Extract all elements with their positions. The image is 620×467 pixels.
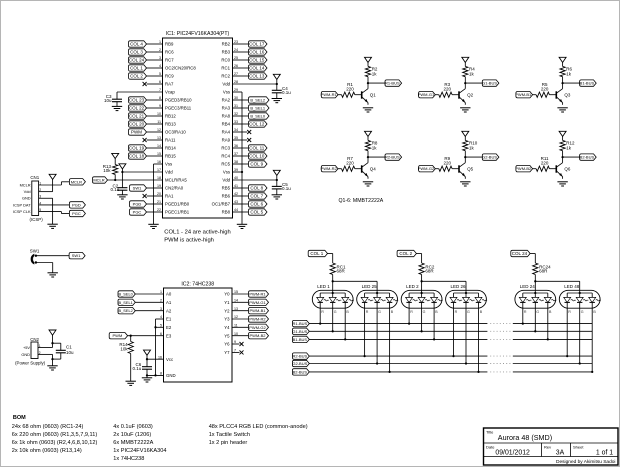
node COL 14 label (IC1 pin 26) bbox=[249, 65, 268, 71]
power Vdd Q2 bbox=[462, 57, 469, 62]
svg-text:(Power Supply): (Power Supply) bbox=[15, 361, 46, 366]
svg-text:2x 10uF (1206): 2x 10uF (1206) bbox=[113, 432, 151, 438]
svg-text:ICSP CLK: ICSP CLK bbox=[13, 209, 31, 214]
node MCLR label (IC1) bbox=[93, 177, 108, 183]
node R1-BUS label (Q1) bbox=[385, 80, 402, 86]
svg-text:PWM-G2: PWM-G2 bbox=[418, 166, 435, 171]
CN1 pin labels bbox=[13, 181, 41, 214]
svg-text:B_SEL1: B_SEL1 bbox=[119, 300, 133, 305]
svg-text:LED 48: LED 48 bbox=[564, 284, 580, 289]
svg-text:09/01/2012: 09/01/2012 bbox=[495, 450, 530, 457]
node PGC label (IC1) bbox=[130, 209, 147, 215]
wire R1-BUS line bbox=[309, 323, 592, 325]
wire collector Q5 out bbox=[465, 156, 482, 158]
wire IC1 pin17 Vdd bbox=[122, 169, 162, 188]
node G1-BUS label (bus) bbox=[292, 328, 309, 334]
svg-text:4x 0.1uF (0603): 4x 0.1uF (0603) bbox=[113, 424, 153, 430]
node junction CN2 bottom bbox=[51, 358, 53, 360]
power Vdd IC1 pin17 bbox=[119, 164, 126, 169]
wire LED 25 G cathode to bus bbox=[376, 302, 378, 363]
resistor R8 1k bbox=[365, 140, 378, 150]
wire R4 bottom bbox=[464, 77, 466, 83]
capacitor C1 bbox=[56, 345, 74, 355]
node COL 15 label (IC1 pin 25) bbox=[249, 57, 268, 63]
no-connect IC1 pin 20 bbox=[143, 194, 163, 198]
wire E1-E2 tie to GND bbox=[155, 319, 157, 375]
node junction pin28 bbox=[276, 83, 278, 85]
svg-text:LED 1: LED 1 bbox=[317, 284, 330, 289]
wire IC2 Vcc bbox=[147, 355, 164, 366]
svg-text:COL 24: COL 24 bbox=[129, 57, 145, 62]
wire LED 2 B cathode to bus bbox=[433, 302, 435, 339]
svg-text:1k: 1k bbox=[372, 145, 378, 150]
node junction pin17 bbox=[121, 171, 123, 173]
diode LED 1 B bbox=[342, 293, 354, 314]
svg-text:A1: A1 bbox=[166, 300, 172, 305]
svg-text:B1-BUS: B1-BUS bbox=[580, 81, 595, 86]
diode LED 48 R bbox=[564, 293, 576, 314]
ground CN1 bbox=[47, 224, 57, 228]
svg-text:RA3: RA3 bbox=[222, 106, 231, 111]
node junction RC1 bbox=[332, 280, 334, 282]
wire CN1 pin1 MCLR bbox=[39, 182, 70, 185]
node COL 22 label (IC1 pin 9) bbox=[129, 105, 147, 111]
wire LED 1 G cathode to bus bbox=[332, 302, 334, 331]
node PWM-R2 label (Q4) bbox=[321, 166, 338, 172]
svg-text:COL 8: COL 8 bbox=[250, 185, 263, 190]
diode LED 1 G bbox=[329, 293, 341, 314]
svg-text:CN2/RA0: CN2/RA0 bbox=[165, 186, 184, 191]
wire CN1 pin3 GND bbox=[39, 198, 53, 224]
svg-text:RB9: RB9 bbox=[165, 42, 174, 47]
resistor RC24 68R bbox=[533, 263, 551, 275]
svg-text:1k: 1k bbox=[469, 145, 475, 150]
svg-text:E2: E2 bbox=[166, 325, 172, 330]
svg-text:GND: GND bbox=[21, 352, 30, 357]
resistor R5 220 bbox=[536, 82, 549, 97]
svg-text:LED 2: LED 2 bbox=[406, 284, 419, 289]
wire LED 2 G cathode to bus bbox=[421, 302, 423, 331]
svg-text:Y0: Y0 bbox=[224, 292, 230, 297]
wire R11 to base bbox=[549, 168, 556, 170]
capacitor C6 bbox=[133, 362, 152, 371]
svg-text:B_SEL0: B_SEL0 bbox=[250, 113, 265, 118]
wire LED 25 R cathode to bus bbox=[364, 302, 366, 356]
svg-text:RB2: RB2 bbox=[222, 42, 231, 47]
wire R14 top bbox=[130, 336, 132, 342]
node junction E2 bbox=[154, 326, 156, 328]
svg-text:PGC: PGC bbox=[133, 209, 142, 214]
diode LED 26 R bbox=[450, 293, 462, 314]
node junction LED 26 G on bus bbox=[465, 362, 467, 364]
wire R12 top bbox=[562, 137, 564, 141]
wire IC2 GND pin bbox=[147, 374, 164, 376]
svg-text:COL 11: COL 11 bbox=[249, 145, 265, 150]
node COL 13 label (IC1 pin 27) bbox=[249, 73, 268, 79]
svg-text:1k: 1k bbox=[566, 71, 572, 76]
wire LED 26 B cathode to bus bbox=[478, 302, 480, 372]
svg-text:1x 2 pin header: 1x 2 pin header bbox=[209, 440, 248, 446]
node junction LED 2 anode bbox=[420, 292, 422, 294]
diode LED 1 R bbox=[317, 293, 329, 314]
node COL 8 label (IC1 pin 41) bbox=[249, 185, 268, 191]
svg-text:Y7: Y7 bbox=[224, 350, 230, 355]
capacitor C4 bbox=[272, 86, 291, 99]
svg-text:COL 15: COL 15 bbox=[249, 57, 265, 62]
wire R12 bottom bbox=[562, 151, 564, 157]
svg-text:1x 74HC238: 1x 74HC238 bbox=[113, 456, 144, 462]
wire LED 1 R cathode to bus bbox=[319, 302, 321, 323]
svg-text:PGC: PGC bbox=[72, 211, 81, 216]
node PGD label (CN1) bbox=[69, 202, 85, 208]
svg-text:PWM-B2: PWM-B2 bbox=[515, 166, 532, 171]
svg-text:MCLR: MCLR bbox=[20, 182, 31, 187]
note COL active-high bbox=[164, 230, 230, 244]
wire IC1 pin 12 bbox=[147, 131, 163, 133]
LED LED 25 package bbox=[357, 284, 398, 308]
svg-text:Y6: Y6 bbox=[224, 342, 230, 347]
wire IC1 pin 25 bbox=[233, 59, 249, 61]
node junction MCLR bbox=[114, 179, 116, 181]
svg-text:RB14: RB14 bbox=[165, 146, 176, 151]
wire SW1 bottom contact bbox=[36, 263, 53, 273]
svg-text:COL 22: COL 22 bbox=[129, 105, 145, 110]
svg-text:Aurora 48 (SMD): Aurora 48 (SMD) bbox=[498, 433, 552, 442]
svg-text:Q1-6: MMBT2222A: Q1-6: MMBT2222A bbox=[339, 198, 384, 204]
wire IC1 pin 30 bbox=[233, 99, 249, 101]
node COL 18 label (IC1 pin 15) bbox=[129, 153, 147, 159]
wire B1-BUS line bbox=[309, 338, 592, 340]
svg-text:CN1: CN1 bbox=[30, 175, 39, 180]
node COL 10 label (IC1 pin 37) bbox=[249, 153, 268, 159]
svg-text:COL 6: COL 6 bbox=[250, 201, 263, 206]
wire LED 24 R cathode to bus bbox=[522, 302, 524, 323]
node junction LED 2 R on bus bbox=[408, 322, 410, 324]
wire B1-BUS dotted continuation bbox=[487, 338, 513, 340]
wire IC1 pin 41 bbox=[233, 187, 249, 189]
capacitor C3 bbox=[104, 94, 122, 106]
node SW1 label (IC1 pin19) bbox=[130, 185, 147, 191]
node junction pin40 bbox=[276, 179, 278, 181]
node junction LED 25 anode bbox=[376, 292, 378, 294]
wire PWM-G2 to R9 bbox=[435, 168, 439, 170]
svg-text:G1-BUS: G1-BUS bbox=[292, 329, 307, 334]
node B2-BUS label (Q6) bbox=[580, 154, 597, 160]
svg-text:RA7: RA7 bbox=[165, 82, 174, 87]
ground SW1 bbox=[48, 273, 58, 277]
power Vdd CN1 bbox=[49, 174, 56, 179]
svg-text:10u: 10u bbox=[104, 98, 112, 103]
IC1 pin names bbox=[165, 42, 231, 215]
svg-text:48x PLCC4 RGB LED (common-anod: 48x PLCC4 RGB LED (common-anode) bbox=[209, 424, 308, 430]
svg-text:COL 3: COL 3 bbox=[130, 49, 143, 54]
wire LED 24 anode entry bbox=[523, 290, 548, 293]
wire LED 26 anode entry bbox=[454, 290, 479, 293]
ground C3 bbox=[112, 106, 122, 110]
wire LED 48 B cathode to bus bbox=[591, 302, 593, 372]
svg-text:RB3: RB3 bbox=[222, 50, 231, 55]
svg-text:MCLR/RA5: MCLR/RA5 bbox=[165, 178, 187, 183]
node COL 2 label (IC1 pin 5) bbox=[129, 73, 147, 79]
svg-text:1k: 1k bbox=[372, 71, 378, 76]
resistor R6 1k bbox=[560, 66, 573, 76]
no-connect IC2 Y7 bbox=[232, 350, 244, 354]
wire IC1 pin 15 bbox=[147, 155, 163, 157]
svg-text:LED 25: LED 25 bbox=[362, 284, 378, 289]
wire C1 top branch bbox=[53, 343, 61, 350]
svg-text:COL 24: COL 24 bbox=[512, 251, 528, 256]
svg-text:Q3: Q3 bbox=[564, 92, 571, 97]
node COL 24 label (IC1 pin 3) bbox=[129, 57, 147, 63]
svg-text:G2-BUS: G2-BUS bbox=[292, 361, 307, 366]
svg-text:0.1u: 0.1u bbox=[111, 187, 120, 192]
wire IC2 A2 bbox=[135, 310, 163, 312]
resistor R13 10k bbox=[103, 164, 118, 174]
svg-text:10u: 10u bbox=[66, 350, 74, 355]
node junction LED 1 R on bus bbox=[319, 322, 321, 324]
svg-text:1k: 1k bbox=[566, 145, 572, 150]
node MCLR label (CN1) bbox=[69, 179, 85, 185]
svg-text:RA11: RA11 bbox=[165, 138, 176, 143]
node B_SEL0 label (IC2) bbox=[118, 291, 135, 297]
wire R3 to base bbox=[452, 94, 459, 96]
node COL 16 label (IC1 pin 24) bbox=[249, 49, 268, 55]
wire G1-BUS line bbox=[309, 330, 592, 332]
diode LED 24 B bbox=[544, 293, 556, 314]
svg-text:R: R bbox=[524, 310, 527, 314]
resistor R3 220 bbox=[439, 82, 452, 97]
no-connect IC2 Y6 bbox=[232, 342, 244, 346]
svg-text:Designed by Akimitsu Sadoi: Designed by Akimitsu Sadoi bbox=[556, 459, 615, 465]
svg-text:G: G bbox=[423, 310, 426, 314]
svg-text:RB12: RB12 bbox=[165, 114, 176, 119]
svg-text:Rev: Rev bbox=[544, 444, 551, 449]
wire IC2 Y1 bbox=[232, 301, 249, 303]
svg-text:2x 10k ohm (0603) (R13,14): 2x 10k ohm (0603) (R13,14) bbox=[12, 448, 82, 454]
diode LED 48 B bbox=[589, 293, 601, 314]
svg-text:220: 220 bbox=[444, 86, 452, 91]
wire IC1 pin 24 bbox=[233, 51, 249, 53]
svg-text:(ICSP): (ICSP) bbox=[30, 217, 44, 222]
svg-text:220: 220 bbox=[541, 86, 549, 91]
svg-text:0.1u: 0.1u bbox=[133, 366, 142, 371]
wire anode branch LED 2 bbox=[421, 281, 423, 290]
wire R9 to base bbox=[452, 168, 459, 170]
node B1-BUS label (Q3) bbox=[580, 80, 597, 86]
wire CN1 pin4 PGD bbox=[39, 204, 70, 206]
ground C4 bbox=[272, 99, 282, 103]
svg-text:RB4: RB4 bbox=[222, 122, 231, 127]
node G2-BUS label (bus) bbox=[292, 360, 309, 366]
svg-text:Vdd: Vdd bbox=[165, 170, 173, 175]
wire IC2 A1 bbox=[135, 301, 163, 303]
power Vdd Q4 bbox=[365, 131, 372, 136]
wire R2-BUS dotted continuation bbox=[487, 355, 513, 357]
node COL 20 label (IC1 pin 11) bbox=[129, 121, 147, 127]
svg-text:COL 14: COL 14 bbox=[249, 65, 265, 70]
svg-text:Vss: Vss bbox=[223, 170, 230, 175]
wire PWM-R1 to R1 bbox=[338, 94, 342, 96]
node G1-BUS label (Q2) bbox=[482, 80, 499, 86]
node COL 21 label (IC1 pin 10) bbox=[129, 113, 147, 119]
svg-text:RA1: RA1 bbox=[165, 194, 174, 199]
svg-text:Y5: Y5 bbox=[224, 333, 230, 338]
svg-text:1k: 1k bbox=[469, 71, 475, 76]
svg-text:CN2: CN2 bbox=[30, 337, 39, 342]
wire IC1 pin 27 bbox=[233, 75, 249, 77]
node B_SEL1 label (IC2) bbox=[118, 299, 135, 305]
wire IC1 pin 1 bbox=[147, 43, 163, 45]
wire IC1 pin22 bbox=[147, 211, 163, 213]
wire anode branch LED 26 bbox=[422, 281, 466, 290]
node PWM-G2 label (Q5) bbox=[418, 166, 436, 172]
svg-text:G: G bbox=[467, 310, 470, 314]
node junction Vcc bbox=[146, 358, 148, 360]
wire R7 to base bbox=[355, 168, 362, 170]
node B_SEL2 label (IC2) bbox=[118, 308, 135, 314]
node junction LED 26 R on bus bbox=[452, 355, 454, 357]
node junction Q1 collector bbox=[367, 82, 369, 84]
node COL 9 label (IC1 pin 38) bbox=[249, 161, 268, 167]
wire collector Q3 out bbox=[563, 82, 580, 84]
node junction LED 1 G on bus bbox=[332, 330, 334, 332]
node PWM-R1 label (IC2 Y0) bbox=[249, 291, 269, 297]
title block frame bbox=[484, 428, 619, 465]
node B_SEL0 label (IC1 pin 32) bbox=[249, 113, 270, 119]
svg-text:COL1 - 24 are active-high: COL1 - 24 are active-high bbox=[164, 230, 230, 236]
wire LED 2 R cathode to bus bbox=[408, 302, 410, 323]
wire collector Q1 out bbox=[368, 82, 385, 84]
wire IC1 pin40 Vdd bbox=[233, 176, 277, 187]
svg-text:R2-BUS: R2-BUS bbox=[293, 354, 308, 359]
node B_SEL1 label (IC1 pin 31) bbox=[249, 105, 270, 111]
node junction Vss right bbox=[241, 171, 243, 173]
wire anode branch LED 48 bbox=[535, 281, 579, 290]
node junction CN2 top bbox=[51, 342, 53, 344]
node junction R14 bbox=[130, 335, 132, 337]
node PWM-G1 label (IC2 Y1) bbox=[249, 299, 269, 305]
LED LED 26 package bbox=[446, 284, 487, 308]
wire IC1 pin16 Vss bbox=[154, 164, 163, 224]
switch SW1 bbox=[30, 249, 40, 265]
node COL 6 label (IC1 pin 43) bbox=[249, 201, 268, 207]
svg-text:COL 4: COL 4 bbox=[130, 41, 143, 46]
wire IC1 pin 32 bbox=[233, 115, 249, 117]
wire anode branch LED 24 bbox=[534, 281, 536, 290]
diode LED 48 G bbox=[576, 293, 588, 314]
node junction LED 48 G on bus bbox=[579, 362, 581, 364]
node PGC label (CN1) bbox=[69, 210, 85, 216]
svg-text:COL 2: COL 2 bbox=[130, 73, 143, 78]
svg-text:PWM: PWM bbox=[113, 333, 123, 338]
wire GND drop bbox=[146, 375, 148, 377]
svg-text:R: R bbox=[568, 310, 571, 314]
wire IC1 pin 23 bbox=[233, 43, 249, 45]
wire LED 48 R cathode to bus bbox=[566, 302, 568, 356]
wire R13 bottom bbox=[114, 175, 116, 181]
node R2-BUS label (Q4) bbox=[385, 154, 402, 160]
node junction LED 24 R on bus bbox=[522, 322, 524, 324]
wire COL 24 to RC24 bbox=[530, 254, 535, 264]
wire R5 to base bbox=[549, 94, 556, 96]
svg-text:Q2: Q2 bbox=[467, 92, 474, 97]
svg-text:PWM-G1: PWM-G1 bbox=[249, 300, 266, 305]
node PWM label (IC2 E3) bbox=[109, 333, 127, 339]
power Vcc IC2 bbox=[144, 350, 151, 355]
note Q1-6 type bbox=[339, 198, 384, 204]
wire R2 top bbox=[367, 63, 369, 67]
wire IC1 pin18 MCLR bbox=[108, 179, 163, 181]
ground IC1 Vss left bbox=[148, 224, 158, 228]
connector CN2 box bbox=[21, 337, 40, 359]
power Vdd C5 bbox=[273, 170, 280, 175]
svg-text:3A: 3A bbox=[556, 450, 565, 457]
svg-text:COL 18: COL 18 bbox=[129, 153, 145, 158]
svg-text:E3: E3 bbox=[166, 333, 172, 338]
resistor R2 1k bbox=[365, 66, 378, 76]
wire IC2 E2 bbox=[156, 326, 164, 328]
wire collector Q4 out bbox=[368, 156, 385, 158]
node junction LED 24 anode bbox=[534, 292, 536, 294]
node junction LED 25 B on bus bbox=[388, 371, 390, 373]
ground Q3 bbox=[557, 108, 567, 112]
wire C6 bottom bbox=[146, 369, 148, 375]
node PWM-B2 label (IC2 Y5) bbox=[249, 333, 269, 339]
wire R14 bottom bbox=[130, 354, 132, 382]
wire IC1 pin21 bbox=[147, 203, 163, 205]
node COL 12 label (IC1 pin 33) bbox=[249, 121, 268, 127]
svg-text:OC1/RB7: OC1/RB7 bbox=[212, 202, 231, 207]
svg-text:R1-BUS: R1-BUS bbox=[385, 81, 400, 86]
ground Q6 bbox=[557, 182, 567, 186]
node COL 23 label (IC1 pin 8) bbox=[129, 97, 147, 103]
wire IC1 pin 36 bbox=[233, 147, 249, 149]
svg-text:PWM-R2: PWM-R2 bbox=[249, 316, 266, 321]
svg-text:B_SEL2: B_SEL2 bbox=[250, 97, 265, 102]
svg-text:G1-BUS: G1-BUS bbox=[482, 81, 497, 86]
svg-text:Vdd: Vdd bbox=[222, 82, 230, 87]
no-connect IC1 pin 6 bbox=[143, 82, 163, 86]
wire IC1 pin 44 bbox=[233, 211, 249, 213]
svg-text:RB5: RB5 bbox=[222, 186, 231, 191]
svg-text:PWM-B1: PWM-B1 bbox=[250, 308, 267, 313]
node COL 5 label (IC1 pin 44) bbox=[249, 209, 268, 215]
svg-text:6x 220 ohm (0603) (R1,3,5,7,9,: 6x 220 ohm (0603) (R1,3,5,7,9,11) bbox=[12, 432, 98, 438]
diode LED 24 R bbox=[519, 293, 531, 314]
wire IC2 Y3 bbox=[232, 318, 249, 320]
diode LED 24 G bbox=[532, 293, 544, 314]
ground C2 bbox=[117, 195, 127, 199]
node PWM-B2 label (Q6) bbox=[515, 166, 532, 172]
svg-text:Sheet: Sheet bbox=[573, 444, 584, 449]
svg-text:PWM-R2: PWM-R2 bbox=[321, 166, 338, 171]
node R1-BUS label (bus) bbox=[292, 320, 309, 326]
svg-text:MCLR: MCLR bbox=[93, 177, 104, 182]
svg-text:COL 23: COL 23 bbox=[129, 97, 145, 102]
svg-text:RC9: RC9 bbox=[165, 74, 174, 79]
IC IC2 74HC238 box bbox=[164, 282, 233, 382]
wire R10 top bbox=[464, 137, 466, 141]
diode LED 26 B bbox=[475, 293, 487, 314]
svg-text:R: R bbox=[321, 310, 324, 314]
svg-text:RC2: RC2 bbox=[221, 74, 230, 79]
wire IC1 pin 42 bbox=[233, 195, 249, 197]
wire SW1 top contact bbox=[36, 255, 69, 257]
wire IC1 pin 4 bbox=[147, 67, 163, 69]
svg-text:PWM is active-high: PWM is active-high bbox=[164, 238, 214, 244]
svg-text:G: G bbox=[536, 310, 539, 314]
node junction LED 2 B on bus bbox=[433, 338, 435, 340]
